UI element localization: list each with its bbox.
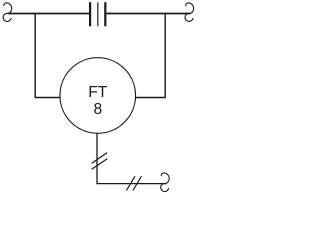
svg-text:8: 8 bbox=[94, 101, 103, 118]
svg-text:FT: FT bbox=[88, 84, 108, 101]
